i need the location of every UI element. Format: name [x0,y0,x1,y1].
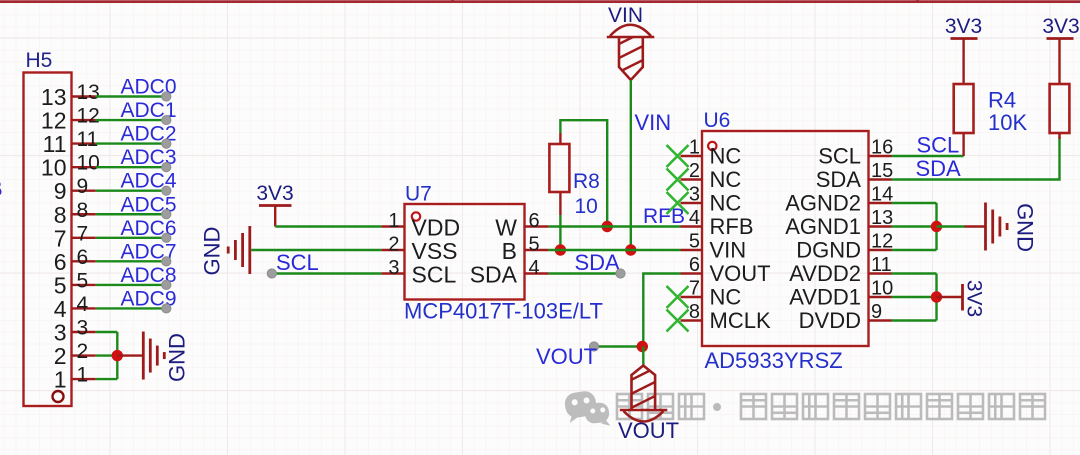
wire ADC5 [96,213,165,215]
svg-text:1: 1 [54,367,67,393]
svg-text:10: 10 [77,152,100,175]
H5 pin 12 [41,105,100,134]
power 3V3 (R5 right) [1042,15,1079,39]
U6 pin 16 SCL [818,137,893,169]
svg-text:SCL: SCL [276,250,319,275]
svg-text:AVDD1: AVDD1 [789,285,861,310]
junction VOUT [637,341,648,352]
dangling end SDA [616,269,625,278]
power VOUT symbol [618,366,679,444]
wire U6 VOUT down [643,274,680,347]
svg-text:3: 3 [77,317,89,340]
svg-text:2: 2 [689,160,700,182]
svg-text:SCL: SCL [818,144,861,169]
wire DVDD [892,319,937,321]
wire VOUT label stub [595,345,643,347]
H5 pin 2 [54,340,96,369]
svg-text:10K: 10K [988,110,1027,135]
svg-text:9: 9 [54,178,67,204]
dangling end VOUT [589,342,598,351]
svg-text:VIN: VIN [710,238,747,263]
net label ADC2 [121,123,177,146]
junction avdd [931,291,942,302]
wire gnd bus vertical [116,332,118,379]
svg-text:SDA: SDA [916,156,962,181]
wire avdd bus vertical [935,274,937,321]
wire AGND1 [892,225,937,227]
svg-text:RFB: RFB [643,205,685,228]
net label ADC9 [121,287,177,310]
dangling end SCL [267,269,276,278]
svg-text:GND: GND [1013,203,1038,252]
U6 pin 15 SDA [816,160,894,192]
wire ADC1 [96,119,165,121]
connector H5 [24,73,72,407]
H5 pin 6 [54,246,96,275]
wire R8 bottom to B row [559,215,561,250]
svg-text:1: 1 [388,210,399,232]
svg-text:3V3: 3V3 [1042,15,1079,38]
wire B to U6 VIN [549,249,681,251]
svg-text:GND: GND [200,227,225,276]
svg-text:12: 12 [77,105,100,128]
ground symbol (U7) [200,226,250,275]
svg-text:13: 13 [77,81,100,104]
svg-text:3: 3 [54,320,67,346]
svg-text:5: 5 [54,272,67,298]
svg-text:6: 6 [529,210,540,232]
dangling end ADC6 [162,233,171,242]
svg-text:8: 8 [77,199,89,222]
svg-text:MCP4017T-103E/LT: MCP4017T-103E/LT [404,299,603,324]
U7 pin 5 B [502,234,549,265]
svg-text:GND: GND [165,333,190,382]
wire 3V3 to U7 VDD [275,225,381,227]
svg-text:4: 4 [689,207,700,229]
U6 pin 5 VIN [681,231,747,263]
svg-text:10: 10 [575,195,598,218]
U7 pin 4 SDA [470,257,549,288]
net label VIN [635,110,672,135]
svg-text:SDA: SDA [575,250,621,275]
wire AVDD1 [892,296,937,298]
svg-text:7: 7 [689,278,700,300]
U6 pin 1 NC [667,137,742,169]
U6 pin 12 DGND [796,231,893,263]
wire ADC6 [96,237,165,239]
dangling end ADC7 [162,257,171,266]
svg-text:4: 4 [54,296,67,322]
wire ADC3 [96,166,165,168]
watermark text [617,394,1045,419]
wire ADC8 [96,284,165,286]
wire SCL [892,155,964,157]
svg-text:3V3: 3V3 [945,15,982,38]
dangling end ADC9 [162,304,171,313]
net label ADC5 [121,193,177,216]
resistor R5 (right) [1050,39,1070,140]
svg-text:NC: NC [710,167,742,192]
wire ADC4 [96,189,165,191]
dangling end ADC1 [162,115,171,124]
svg-text:4: 4 [77,293,89,316]
svg-text:7: 7 [77,222,89,245]
svg-text:VOUT: VOUT [536,344,597,369]
H5 pin 11 [43,128,99,157]
wire VIN vertical [630,80,632,250]
svg-text:VSS: VSS [412,238,458,264]
op-amp U7 body [405,204,525,300]
H5 pin 8 [54,199,96,228]
IC U6 body [702,131,869,346]
svg-text:NC: NC [710,285,742,310]
power 3V3 (R4 left) [945,15,982,39]
net label ADC7 [121,240,177,263]
svg-text:13: 13 [871,207,893,229]
svg-text:VIN: VIN [608,4,643,27]
svg-text:VOUT: VOUT [710,261,771,286]
designator U7 [405,183,432,206]
svg-text:1: 1 [689,137,700,159]
U6 pin 9 DVDD [799,301,892,333]
svg-text:6: 6 [689,254,700,276]
svg-text:VIN: VIN [635,110,672,135]
wire to VOUT port [642,347,644,368]
R8 bottom pin [559,192,561,215]
U7 pin 3 SCL [381,257,456,288]
svg-text:NC: NC [710,191,742,216]
wire AVDD2 [892,272,937,274]
svg-text:9: 9 [871,301,882,323]
clipped net label at left edge [0,176,3,201]
wire ADC9 [96,307,165,309]
svg-text:10: 10 [41,155,67,181]
U6 pin 14 AGND2 [785,184,893,216]
H5 pin 9 [54,175,96,204]
svg-text:RFB: RFB [710,214,754,239]
U6 pin 13 AGND1 [785,207,893,239]
junction R8/W [602,221,613,232]
svg-text:U6: U6 [704,109,731,132]
U6 pin 3 NC [667,184,742,216]
svg-text:3V3: 3V3 [963,280,986,317]
H5 pin 7 [54,222,96,251]
svg-text:4: 4 [529,257,540,279]
junction VIN/B [625,244,636,255]
net label ADC4 [121,170,177,193]
wire R8 top loop [560,120,607,226]
net label ADC0 [121,76,177,99]
U7 pin 1 VDD [381,210,460,241]
svg-text:VOUT: VOUT [618,418,679,443]
wire H5 pin3 to gnd bus [96,331,118,333]
svg-text:13: 13 [41,84,67,110]
value MCP4017T-103E/LT [404,299,603,324]
U6 pin 2 NC [667,160,742,192]
svg-text:6: 6 [54,249,67,275]
svg-text:SDA: SDA [816,167,862,192]
svg-text:11: 11 [43,131,67,157]
U6 pin 10 AVDD1 [789,278,893,310]
U7 pin 2 VSS [381,234,457,265]
svg-text:11: 11 [871,254,892,276]
wire agnd to ground [937,225,986,227]
svg-text:2: 2 [54,343,67,369]
watermark wechat icon [563,390,610,429]
R8 top pin [559,133,561,144]
designator H5 [26,49,53,72]
dangling end ADC8 [162,280,171,289]
H5 pin 10 [41,152,100,181]
net label ADC3 [121,146,177,169]
junction R8/B [555,244,566,255]
svg-text:14: 14 [871,184,893,206]
ground symbol (H5) [143,332,189,382]
wire GND to U7 VSS [251,249,381,251]
svg-text:11: 11 [77,128,99,151]
wire ADC7 [96,260,165,262]
svg-text:AD5933YRSZ: AD5933YRSZ [705,348,843,373]
U6 pin 11 AVDD2 [789,254,892,286]
U7 pin 1 indicator [412,212,420,220]
svg-text:W: W [495,215,517,241]
svg-text:15: 15 [871,160,893,182]
svg-text:5: 5 [77,269,89,292]
svg-text:3: 3 [689,184,700,206]
svg-text:SCL: SCL [917,133,960,158]
svg-text:B: B [0,176,3,201]
power 3V3 (U6) [937,280,986,317]
svg-text:3: 3 [388,257,399,279]
designator R8 [573,170,600,193]
net label RFB [643,205,685,228]
H5 pin 4 [54,293,96,322]
svg-text:10: 10 [871,278,893,300]
svg-text:SCL: SCL [412,262,457,288]
svg-text:NC: NC [710,144,742,169]
dangling end ADC2 [162,139,171,148]
wire agnd bus vertical [935,203,937,250]
value AD5933YRSZ [705,348,843,373]
wire SDA stub [549,272,620,274]
H5 pin 3 [54,317,96,346]
net label ADC6 [121,217,177,240]
svg-text:U7: U7 [405,183,432,206]
designator U6 [704,109,731,132]
wire SCL to U7 pin3 [272,272,382,274]
dangling end ADC4 [162,186,171,195]
designator R4 [988,88,1016,113]
resistor R4 (left) [954,39,974,157]
U6 pin 6 VOUT [681,254,771,286]
junction H5 gnd [112,350,123,361]
U6 pin 7 NC [667,278,742,310]
dangling end ADC5 [162,210,171,219]
svg-text:2: 2 [77,340,89,363]
svg-text:B: B [502,238,517,264]
dangling end ADC3 [162,163,171,172]
wire H5 pin1 to gnd bus [96,378,118,380]
net label ADC8 [121,264,177,287]
svg-text:DGND: DGND [796,238,861,263]
svg-text:5: 5 [689,231,700,253]
ground symbol (U6) [986,203,1038,252]
dangling end ADC0 [162,92,171,101]
svg-text:9: 9 [77,175,89,198]
value 10K [988,110,1027,135]
wire ADC0 [96,95,165,97]
svg-text:VDD: VDD [412,215,461,241]
H5 pin 13 [41,81,100,110]
net label SCL [917,133,960,158]
net label SDA [916,156,962,181]
U6 pin 8 MCLK [667,301,771,333]
wire W to RFB [549,225,681,227]
svg-text:H5: H5 [26,49,53,72]
svg-text:AGND2: AGND2 [785,191,861,216]
svg-text:16: 16 [871,137,893,159]
svg-text:AVDD2: AVDD2 [789,261,861,286]
svg-text:DVDD: DVDD [799,308,861,333]
svg-text:6: 6 [77,246,89,269]
junction agnd [931,221,942,232]
svg-text:3V3: 3V3 [256,182,293,205]
net label VOUT [536,344,597,369]
svg-text:1: 1 [77,364,89,387]
svg-text:AGND1: AGND1 [785,214,861,239]
svg-text:8: 8 [54,202,67,228]
wire AGND2 [892,202,937,204]
H5 pin 1 [54,364,96,393]
wire H5 pin2 to gnd bus [96,354,118,356]
wire junction to ground [117,354,142,356]
svg-text:5: 5 [529,234,540,256]
svg-text:12: 12 [871,231,893,253]
svg-text:R8: R8 [573,170,600,193]
net label ADC1 [121,99,177,122]
U6 pin 1 indicator [708,142,716,150]
svg-text:12: 12 [41,108,67,134]
U7 pin 6 W [495,210,548,241]
svg-text:R4: R4 [988,88,1016,113]
svg-text:2: 2 [388,234,399,256]
power VIN symbol [607,4,655,88]
net label SDA (U7) [575,250,621,275]
svg-text:SDA: SDA [470,262,518,288]
wire ADC2 [96,142,165,144]
svg-text:7: 7 [54,225,67,251]
wire SDA [892,137,1060,180]
U6 pin 4 RFB [681,207,754,239]
net label SCL (U7) [276,250,319,275]
H5 pin 1 indicator circle [53,391,64,402]
resistor R8 body [549,144,569,192]
H5 pin 5 [54,269,96,298]
value 10 [575,195,598,218]
wire DGND [892,249,937,251]
svg-text:MCLK: MCLK [710,308,771,333]
svg-text:8: 8 [689,301,700,323]
power 3V3 (U7) [256,182,293,227]
sheet border top line [0,0,1080,3]
